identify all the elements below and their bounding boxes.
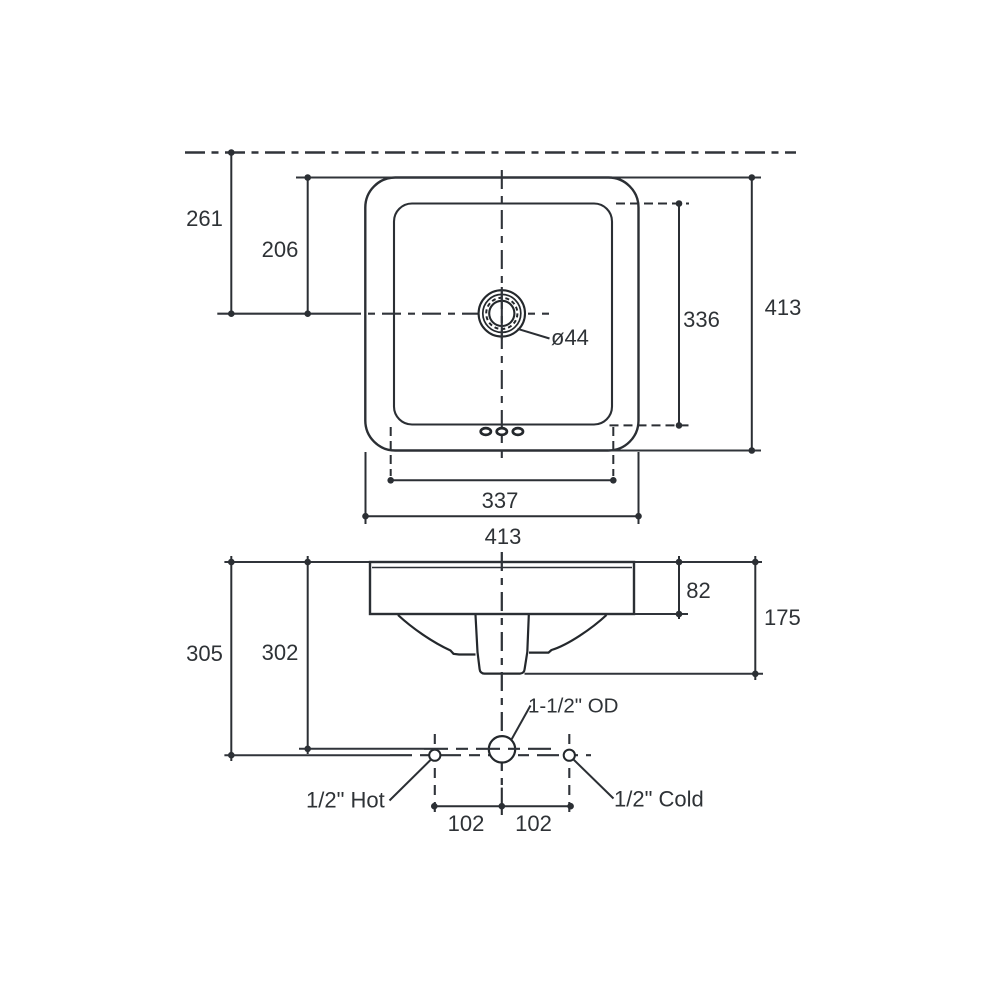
center tick at 102 dimension xyxy=(501,788,503,815)
cold supply vertical centerline xyxy=(568,734,570,816)
hot leader xyxy=(390,760,431,801)
rim inner top line xyxy=(372,567,632,569)
bowl profile right xyxy=(529,615,607,653)
drain outlet leader xyxy=(512,706,531,740)
dimension 305 xyxy=(228,556,235,761)
drain circles (plan) xyxy=(479,290,525,336)
svg-text:175: 175 xyxy=(764,605,801,630)
dimension 336 xyxy=(610,200,690,429)
svg-text:261: 261 xyxy=(186,206,223,231)
dimension 206 xyxy=(304,174,311,317)
elevation vertical centerline xyxy=(501,552,503,787)
top edge extension line xyxy=(296,177,761,179)
overflow holes xyxy=(481,428,523,435)
drain outlet centerline dashes (over circle) xyxy=(424,748,551,750)
dimension 302 xyxy=(304,556,311,754)
wall centerline (top dash-dot) xyxy=(185,151,796,154)
svg-text:ø44: ø44 xyxy=(551,325,589,350)
dimension 413 bottom xyxy=(362,452,642,524)
svg-text:102: 102 xyxy=(515,811,552,836)
svg-text:1/2" Hot: 1/2" Hot xyxy=(306,788,385,813)
extension line at stub bottom (175) xyxy=(525,673,764,675)
elevation top extension line xyxy=(224,561,762,563)
svg-text:337: 337 xyxy=(482,488,519,513)
svg-text:336: 336 xyxy=(683,307,720,332)
svg-text:1-1/2" OD: 1-1/2" OD xyxy=(528,695,618,718)
bottom edge extension line xyxy=(608,450,761,452)
cold supply circle xyxy=(564,750,575,761)
dimension 337 xyxy=(387,427,616,484)
plan horizontal centerline xyxy=(217,313,549,315)
hot supply vertical centerline xyxy=(434,734,436,816)
plan vertical centerline xyxy=(501,170,503,458)
cold leader xyxy=(574,760,614,799)
svg-text:302: 302 xyxy=(262,640,299,665)
hot supply circle xyxy=(429,750,440,761)
dimension 413 right xyxy=(749,174,756,454)
bowl profile left xyxy=(398,615,476,655)
drain leader line xyxy=(518,329,550,339)
plan outer rim (rounded square) xyxy=(365,178,638,451)
svg-text:82: 82 xyxy=(686,578,710,603)
svg-text:413: 413 xyxy=(485,524,522,549)
dimension 82 xyxy=(676,556,683,619)
drain outlet circle (elevation) xyxy=(489,736,515,762)
supply line 305 extension (hot/cold centerline) xyxy=(224,754,591,756)
dimension 261 xyxy=(228,149,235,317)
svg-text:413: 413 xyxy=(765,295,802,320)
elevation rim block xyxy=(370,562,634,614)
dimension 175 xyxy=(752,556,759,680)
plan inner basin (rounded square) xyxy=(394,204,612,425)
supply line 302 extension (drain outlet centerline) xyxy=(299,748,424,750)
svg-text:1/2" Cold: 1/2" Cold xyxy=(614,787,704,812)
svg-text:305: 305 xyxy=(186,641,223,666)
svg-text:102: 102 xyxy=(448,811,485,836)
svg-text:206: 206 xyxy=(262,237,299,262)
dimension 102-102 xyxy=(431,803,574,810)
extension line under rim right (82) xyxy=(634,613,688,615)
drain stub (elevation) xyxy=(476,615,529,674)
